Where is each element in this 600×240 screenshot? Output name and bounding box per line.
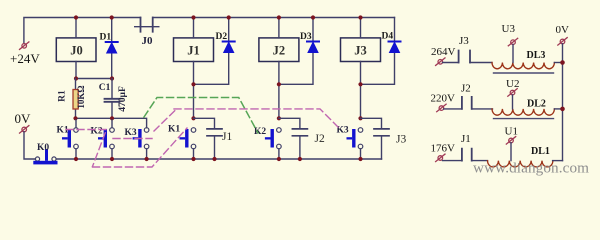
button K3 (latch group) bbox=[347, 128, 363, 159]
relay coil J3 bbox=[341, 38, 381, 62]
svg-text:J2: J2 bbox=[461, 83, 471, 95]
capacitor C1 bbox=[105, 79, 120, 119]
magenta path annotation bbox=[66, 109, 338, 167]
svg-text:K0: K0 bbox=[37, 143, 49, 153]
svg-text:J3: J3 bbox=[396, 134, 406, 146]
wire U1 tap bbox=[510, 143, 512, 161]
node rail J3 bbox=[358, 15, 362, 19]
wire bus R1/C1 bottom to K3 bbox=[76, 118, 147, 127]
terminal 264V bbox=[436, 58, 445, 66]
wire J1 leads bbox=[193, 18, 195, 119]
node J3 latch bbox=[358, 116, 362, 120]
node rail J0 bbox=[74, 15, 78, 19]
node J3 coil bottom bbox=[358, 82, 362, 86]
svg-text:K1: K1 bbox=[168, 125, 180, 135]
svg-text:D1: D1 bbox=[100, 33, 112, 43]
wire J3 leads bbox=[360, 18, 362, 119]
node rail D1 bbox=[110, 15, 114, 19]
node J0 coil bottom bbox=[74, 76, 78, 80]
svg-text:K1: K1 bbox=[57, 126, 69, 136]
svg-text:C1: C1 bbox=[99, 83, 111, 93]
svg-text:www.diangon.com: www.diangon.com bbox=[473, 160, 589, 177]
node K1 bottom (latch) bbox=[191, 157, 195, 161]
node J1 coil bottom bbox=[191, 82, 195, 86]
svg-text:J2: J2 bbox=[273, 44, 286, 58]
terminal +24V bbox=[20, 42, 29, 50]
svg-text:DL2: DL2 bbox=[527, 99, 546, 110]
terminal 0V right bbox=[558, 38, 567, 46]
wire 0V drop to bottom rail bbox=[24, 132, 35, 159]
button K1 (start group) bbox=[62, 120, 78, 159]
node rail J1 bbox=[191, 15, 195, 19]
svg-text:U1: U1 bbox=[505, 126, 518, 138]
wire +24V top rail left segment bbox=[24, 18, 141, 44]
node D1/C1 top bbox=[110, 76, 114, 80]
contact J3 (tap select) bbox=[443, 51, 492, 63]
svg-text:J0: J0 bbox=[142, 35, 154, 47]
node J2 latch bbox=[277, 116, 281, 120]
svg-text:J0: J0 bbox=[70, 44, 83, 58]
coil DL2 bbox=[492, 109, 554, 115]
svg-text:0V: 0V bbox=[15, 111, 32, 126]
wire J0-bottom to D1/C1 node bbox=[76, 78, 112, 80]
svg-text:R1: R1 bbox=[58, 90, 68, 102]
wire DL3 to 0V bbox=[554, 62, 562, 64]
wire DL1 to 0V bbox=[553, 160, 563, 162]
svg-text:DL3: DL3 bbox=[527, 50, 546, 61]
terminal 176V bbox=[436, 154, 445, 162]
node K3 bottom (latch) bbox=[358, 157, 362, 161]
node K3 bottom rail bbox=[145, 157, 149, 161]
coil DL1 bbox=[488, 161, 553, 167]
svg-text:J1: J1 bbox=[461, 133, 471, 145]
svg-text:D2: D2 bbox=[216, 32, 228, 42]
button K2 (start group) bbox=[98, 120, 114, 159]
svg-text:DL1: DL1 bbox=[531, 146, 550, 157]
node K2 bottom rail bbox=[110, 157, 114, 161]
node K1 bottom rail bbox=[74, 157, 78, 161]
node rail J2 bbox=[277, 15, 281, 19]
node rail D2 bbox=[227, 15, 231, 19]
wire +24V top rail right segment bbox=[153, 17, 395, 19]
contact J0 (latch contact in top rail) bbox=[135, 18, 159, 32]
svg-text:K2: K2 bbox=[91, 127, 103, 137]
svg-text:10KΩ: 10KΩ bbox=[76, 85, 86, 108]
contact J3 (self-hold) bbox=[361, 118, 390, 159]
svg-text:D3: D3 bbox=[300, 32, 312, 42]
svg-text:U2: U2 bbox=[506, 78, 519, 90]
svg-text:J1: J1 bbox=[222, 131, 232, 143]
svg-text:D4: D4 bbox=[382, 32, 394, 42]
terminal U3 bbox=[508, 38, 517, 46]
core line DL2 bbox=[494, 118, 554, 120]
svg-text:J3: J3 bbox=[459, 35, 469, 47]
node J2 coil bottom bbox=[277, 82, 281, 86]
wire U2 tap bbox=[512, 95, 514, 109]
button K2 (latch group) bbox=[265, 128, 281, 159]
node 0V DL3 bbox=[560, 60, 565, 65]
diode D2 bbox=[194, 18, 235, 85]
wire U3 tap bbox=[512, 45, 514, 63]
svg-text:176V: 176V bbox=[431, 143, 456, 155]
green path annotation bbox=[144, 98, 258, 134]
relay coil J1 bbox=[174, 38, 214, 62]
node J2 contact bottom bbox=[298, 157, 302, 161]
contact J1 (self-hold) bbox=[194, 118, 223, 159]
resistor R1 bbox=[73, 79, 78, 119]
node R1 bottom bbox=[73, 116, 77, 120]
svg-text:K3: K3 bbox=[125, 128, 137, 138]
svg-text:+24V: +24V bbox=[10, 51, 40, 66]
svg-text:J3: J3 bbox=[354, 44, 367, 58]
svg-text:K2: K2 bbox=[254, 127, 266, 137]
wire DL2 to 0V bbox=[554, 108, 562, 110]
node C1 bottom bbox=[110, 116, 114, 120]
svg-text:J2: J2 bbox=[315, 133, 325, 145]
contact J2 (tap select) bbox=[444, 97, 493, 109]
terminal 0V left bbox=[20, 126, 29, 134]
button K1 (latch group) bbox=[180, 128, 196, 159]
button K0 (stop, NC) bbox=[33, 149, 57, 164]
node rail D3 bbox=[311, 15, 315, 19]
node 0V DL2 bbox=[560, 107, 565, 112]
svg-text:264V: 264V bbox=[431, 46, 456, 58]
wire J0 bottom lead bbox=[75, 62, 77, 79]
terminal 220V bbox=[437, 104, 446, 112]
svg-text:J1: J1 bbox=[187, 44, 200, 58]
relay coil J0 bbox=[56, 38, 96, 62]
svg-text:0V: 0V bbox=[556, 24, 570, 36]
svg-text:220V: 220V bbox=[431, 93, 456, 105]
button K3 (start group) bbox=[133, 128, 149, 159]
relay coil J2 bbox=[259, 38, 299, 62]
wire J0 top lead bbox=[75, 18, 77, 38]
node K2 bottom (latch) bbox=[277, 157, 281, 161]
node J1 contact bottom bbox=[212, 157, 216, 161]
terminal U2 bbox=[508, 89, 517, 97]
svg-text:U3: U3 bbox=[502, 23, 516, 35]
core line DL3 bbox=[494, 72, 554, 74]
wire J2 leads bbox=[278, 18, 280, 119]
terminal U1 bbox=[506, 137, 515, 145]
svg-text:470µF: 470µF bbox=[118, 86, 128, 112]
contact J1 (tap select) bbox=[443, 149, 488, 161]
contact J2 (self-hold) bbox=[279, 118, 308, 159]
diode D3 bbox=[279, 18, 319, 85]
coil DL3 bbox=[492, 63, 554, 69]
diode D4 bbox=[361, 18, 401, 85]
wire 0V bus vertical bbox=[562, 44, 564, 161]
wire bottom rail bbox=[56, 158, 381, 160]
diode D1 bbox=[106, 18, 118, 79]
node J1 latch bbox=[191, 116, 195, 120]
